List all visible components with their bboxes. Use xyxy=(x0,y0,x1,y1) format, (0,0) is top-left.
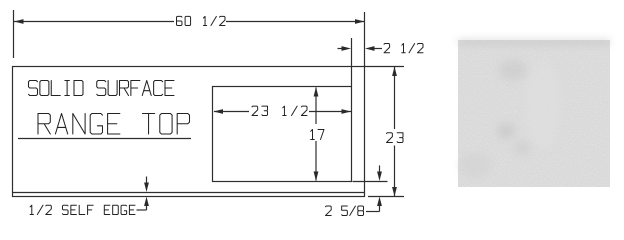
dimension text 23 1/2 xyxy=(252,106,307,115)
label SOLID SURFACE xyxy=(29,81,175,96)
material swatch xyxy=(458,40,610,187)
dimension line 17 upper segment xyxy=(315,88,317,125)
dimension line 23 upper segment xyxy=(394,67,396,129)
dim 2 5/8 upper arrow tail xyxy=(379,166,381,173)
arrowhead 2 5/8 lower (points up) xyxy=(377,197,382,207)
extension line top of dim 23 xyxy=(365,66,404,68)
dimension line 23 1/2 left segment xyxy=(214,111,249,113)
extension line right of dim 60 1/2 xyxy=(364,12,366,66)
dim 2 5/8 lower leader vertical xyxy=(379,206,381,212)
underline of RANGE TOP xyxy=(18,138,191,140)
extension line left of dim 60 1/2 xyxy=(13,10,15,58)
arrowhead 2 1/2 right (outside, points left) xyxy=(365,46,375,51)
self edge dim upper arrow tail xyxy=(146,177,148,184)
arrowhead 23 bottom xyxy=(392,187,397,197)
dimension text 23 xyxy=(387,133,404,143)
arrowhead 17 bottom xyxy=(314,172,319,182)
arrowhead 23 top xyxy=(392,67,397,77)
arrowhead 23 1/2 left xyxy=(214,109,224,114)
arrowhead self edge lower (points up) xyxy=(144,197,149,207)
dimension text 2 1/2 xyxy=(384,44,423,53)
cutout bottom edge extension xyxy=(353,181,388,183)
dimension line 17 lower segment xyxy=(315,141,317,181)
self edge dim lower leader vertical xyxy=(146,206,148,210)
dimension line 60 1/2 right segment xyxy=(226,21,364,23)
arrowhead 17 top xyxy=(314,87,319,97)
dimension line 60 1/2 left segment xyxy=(14,21,174,23)
dimension text 2 5/8 xyxy=(326,206,364,216)
dimension text 60 1/2 xyxy=(177,16,226,25)
dimension 2 1/2 right tail xyxy=(374,48,382,50)
dimension line 23 lower segment xyxy=(394,146,396,197)
arrowhead 60 1/2 right xyxy=(355,19,365,24)
arrowhead self edge upper (points down) xyxy=(144,183,149,193)
arrowhead 60 1/2 left xyxy=(14,19,24,24)
dimension text 1/2 SELF EDGE xyxy=(30,205,135,214)
dimension text 17 xyxy=(311,130,324,140)
label RANGE TOP xyxy=(38,114,189,135)
self edge leader horizontal xyxy=(137,209,147,211)
arrowhead 23 1/2 right xyxy=(342,109,352,114)
self edge inner line xyxy=(13,192,365,194)
extension line for dim 2 1/2 (cutout right edge extended) xyxy=(351,38,353,86)
dimension line 23 1/2 right segment xyxy=(309,111,351,113)
arrowhead 2 1/2 left (outside, points right) xyxy=(342,46,352,51)
inner cooktop cutout rectangle xyxy=(213,87,352,182)
arrowhead 2 5/8 upper (points down) xyxy=(377,172,382,182)
outer countertop rectangle xyxy=(13,67,365,197)
dim 2 5/8 leader horizontal xyxy=(366,211,380,213)
dimension 2 1/2 left tail xyxy=(338,48,343,50)
extension line bottom of dim 23 xyxy=(368,196,404,198)
